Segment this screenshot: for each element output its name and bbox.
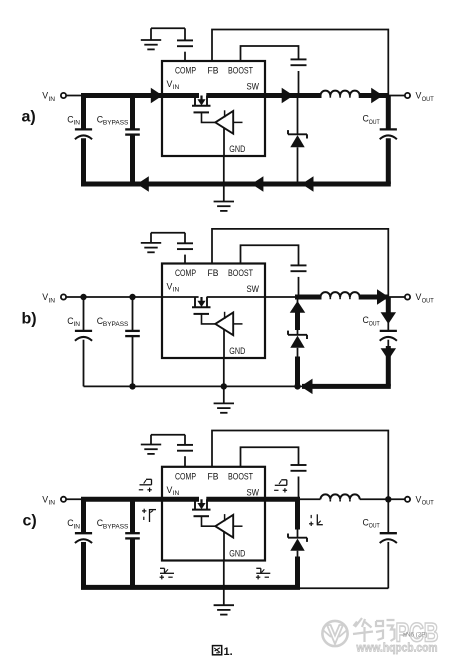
transistor Q1 MOSFET (b)	[192, 297, 215, 324]
svg-text:IN: IN	[48, 500, 55, 507]
svg-text:OUT: OUT	[369, 523, 380, 530]
capacitor comp CC (b)	[177, 243, 193, 249]
wire SW to inductor thick (c)	[265, 497, 300, 502]
diode D1 schottky (b)	[288, 297, 307, 390]
node ripple glyph diode (c)	[309, 514, 323, 526]
svg-text:OUT: OUT	[422, 96, 434, 103]
wire VIN lead (c)	[66, 498, 84, 500]
svg-text:BOOST: BOOST	[228, 268, 253, 278]
svg-text:IN: IN	[73, 120, 80, 127]
pin label FB (c)	[208, 471, 219, 481]
wire VIN lead (b)	[66, 296, 84, 298]
svg-text:V: V	[167, 79, 173, 89]
wire GND stem (c)	[223, 532, 225, 606]
capacitor COUT (a)	[380, 96, 397, 185]
pin label COMP (a)	[175, 66, 196, 76]
op-amp IC U1 box (c)	[162, 467, 265, 561]
ground main (c)	[214, 605, 234, 614]
transistor Q1 MOSFET (c)	[192, 499, 215, 526]
svg-text:IN: IN	[173, 490, 180, 497]
label COUT (b)	[363, 315, 380, 327]
svg-text:V: V	[416, 91, 422, 101]
svg-text:V: V	[42, 91, 48, 101]
pin label SW (c)	[247, 487, 260, 497]
svg-text:FB: FB	[208, 66, 219, 76]
arrow before VOUT (a)	[371, 88, 383, 104]
pin label SW (b)	[247, 284, 260, 294]
svg-text:SW: SW	[247, 487, 260, 497]
wire inductor to VOUT thick (b)	[359, 295, 389, 300]
wire GND stem (a)	[223, 128, 225, 202]
svg-text:OUT: OUT	[422, 500, 434, 507]
wire boost cap to SW (c)	[298, 477, 300, 500]
wire VIN lead (a)	[66, 95, 84, 97]
ground main (b)	[214, 403, 234, 412]
capacitor comp CC (a)	[177, 40, 193, 46]
svg-text:COMP: COMP	[175, 268, 196, 278]
transistor Q1 MOSFET (a)	[192, 96, 215, 123]
svg-text:IN: IN	[173, 84, 180, 91]
arrow rail 3 (a)	[302, 176, 314, 192]
capacitor CIN (b)	[67, 294, 92, 387]
wire BOOST net (a)	[241, 46, 299, 61]
node VIN terminal (a)	[42, 91, 66, 103]
arrow into VOUT node (b)	[377, 289, 389, 305]
svg-text:BOOST: BOOST	[228, 471, 253, 481]
wire COMP pin stub (c)	[184, 456, 186, 467]
pin label FB (b)	[208, 268, 219, 278]
pin label BOOST (a)	[228, 66, 253, 76]
caption figure 1	[213, 646, 233, 658]
pin label GND (a)	[229, 144, 245, 154]
wire input rail thick (a)	[81, 93, 265, 98]
pin label SW (a)	[247, 82, 260, 92]
inductor L1 (c)	[321, 494, 360, 501]
wire ground rail thin right (c)	[298, 587, 389, 589]
svg-text:V: V	[416, 495, 422, 505]
wire COMP pin stub (b)	[184, 255, 186, 264]
circuit b label	[22, 311, 37, 328]
svg-text:BYPASS: BYPASS	[103, 120, 129, 127]
svg-text:V: V	[167, 485, 173, 495]
wire GND stem (b)	[221, 329, 227, 403]
pin label VIN (b)	[167, 282, 180, 294]
pin label GND (b)	[229, 346, 245, 356]
svg-text:V: V	[167, 282, 173, 292]
wire FB net (a)	[212, 30, 388, 96]
wire inductor to VOUT thick (a)	[359, 93, 389, 98]
node ripple glyph VIN pin (c)	[142, 509, 156, 522]
svg-text:BOOST: BOOST	[228, 66, 253, 76]
wire boost cap to SW (a)	[298, 71, 300, 96]
capacitor COUT (b)	[380, 297, 397, 386]
capacitor boost CB (c)	[291, 465, 307, 471]
svg-text:IN: IN	[73, 523, 80, 530]
pin label VIN (a)	[167, 79, 180, 91]
svg-text:SW: SW	[247, 284, 260, 294]
svg-text:c): c)	[23, 513, 37, 530]
node ripple glyph gnd left (c)	[160, 568, 174, 579]
wire SW to inductor thick (a)	[265, 93, 322, 98]
pin label VIN (c)	[167, 485, 180, 497]
node VIN terminal (b)	[42, 292, 66, 304]
wire ground rail thick (a)	[81, 182, 391, 187]
svg-text:IN: IN	[48, 96, 55, 103]
wire comp to ground (b)	[151, 233, 185, 244]
svg-text:aN6 (2P): aN6 (2P)	[403, 632, 428, 639]
wire FB net (b)	[212, 229, 388, 297]
diode D1 schottky (a)	[288, 96, 307, 185]
node ripple glyph SW pin (c)	[274, 480, 287, 493]
node ripple glyph CBYPASS top (c)	[139, 479, 152, 492]
ground comp (a)	[141, 40, 161, 49]
pin label BOOST (c)	[228, 471, 253, 481]
svg-text:FB: FB	[208, 471, 219, 481]
inductor L1 (a)	[321, 91, 360, 98]
arrow rail 2 (a)	[252, 176, 264, 192]
svg-text:GND: GND	[229, 549, 245, 559]
svg-text:FB: FB	[208, 268, 219, 278]
capacitor CIN (a)	[67, 96, 92, 185]
wire SW lead (b)	[265, 296, 298, 298]
svg-text:OUT: OUT	[422, 297, 434, 304]
svg-text:a): a)	[22, 109, 36, 126]
wire comp to ground (a)	[151, 28, 185, 40]
node VIN terminal (c)	[42, 495, 66, 507]
svg-text:IN: IN	[173, 287, 180, 294]
node VOUT terminal (b)	[388, 292, 433, 304]
arrow after SW (a)	[282, 88, 294, 104]
pin label COMP (b)	[175, 268, 196, 278]
svg-text:GND: GND	[229, 144, 245, 154]
node VOUT terminal (c)	[388, 495, 433, 507]
wire BOOST net (c)	[241, 447, 299, 467]
svg-text:V: V	[42, 495, 48, 505]
capacitor CBYPASS (c)	[97, 499, 140, 587]
svg-text:V: V	[416, 292, 422, 302]
svg-text:GND: GND	[229, 346, 245, 356]
node ripple glyph gnd right (c)	[256, 568, 270, 579]
ground comp (c)	[141, 445, 161, 454]
op-amp driver triangle (c)	[215, 514, 242, 537]
svg-text:COMP: COMP	[175, 66, 196, 76]
wire FB net (c)	[212, 431, 388, 500]
arrow rail 1 (a)	[137, 176, 149, 192]
ground comp (b)	[141, 243, 161, 252]
wire BOOST net (b)	[241, 245, 299, 265]
capacitor comp CC (c)	[177, 445, 193, 451]
pin label COMP (c)	[175, 471, 196, 481]
watermark url	[356, 641, 438, 655]
wire comp to ground (c)	[151, 435, 185, 445]
arrow rail (b)	[301, 379, 313, 395]
svg-text:V: V	[42, 292, 48, 302]
inductor L1 (b)	[321, 292, 360, 299]
wire input rail thick (c)	[81, 497, 265, 502]
wire SW to VOUT thin (c)	[298, 498, 389, 500]
capacitor boost CB (a)	[291, 59, 307, 65]
label COUT (c)	[363, 518, 380, 530]
circuit c label	[23, 513, 37, 530]
svg-text:1.: 1.	[224, 646, 233, 658]
node VOUT terminal (a)	[388, 91, 433, 103]
capacitor COUT (c)	[380, 496, 397, 588]
capacitor CIN (c)	[67, 499, 92, 587]
svg-text:b): b)	[22, 311, 37, 328]
wire ground rail (b)	[84, 385, 391, 387]
watermark text 华强PCB	[353, 618, 439, 648]
svg-text:COMP: COMP	[175, 471, 196, 481]
svg-text:IN: IN	[48, 297, 55, 304]
wire boost cap to SW (b)	[298, 277, 300, 297]
arrow into IC (a)	[151, 88, 163, 104]
capacitor boost CB (b)	[291, 265, 307, 271]
svg-text:BYPASS: BYPASS	[103, 523, 129, 530]
svg-text:OUT: OUT	[369, 119, 380, 126]
wire COMP pin stub (a)	[184, 52, 186, 61]
pin label FB (a)	[208, 66, 219, 76]
op-amp IC U1 box (a)	[162, 61, 265, 156]
capacitor CBYPASS (a)	[97, 96, 140, 185]
label COUT (a)	[363, 114, 380, 126]
figure credit text	[403, 632, 428, 639]
svg-text:SW: SW	[247, 82, 260, 92]
circuit a label	[22, 109, 36, 126]
watermark logo circle	[322, 621, 347, 646]
wire ground rail thick (c)	[81, 585, 300, 590]
diode D1 schottky (c)	[288, 499, 307, 587]
svg-text:www.hqpcb.com: www.hqpcb.com	[356, 641, 438, 655]
wire SW to inductor thick (b)	[295, 295, 322, 300]
svg-text:OUT: OUT	[369, 320, 380, 327]
pin label BOOST (b)	[228, 268, 253, 278]
capacitor CBYPASS (b)	[97, 294, 140, 390]
op-amp driver triangle (a)	[215, 110, 242, 133]
op-amp IC U1 box (b)	[162, 264, 265, 359]
ground main (a)	[214, 202, 234, 211]
wire input rail (b)	[84, 296, 266, 298]
svg-text:IN: IN	[73, 321, 80, 328]
op-amp driver triangle (b)	[215, 312, 242, 335]
svg-text:BYPASS: BYPASS	[103, 321, 129, 328]
pin label GND (c)	[229, 549, 245, 559]
